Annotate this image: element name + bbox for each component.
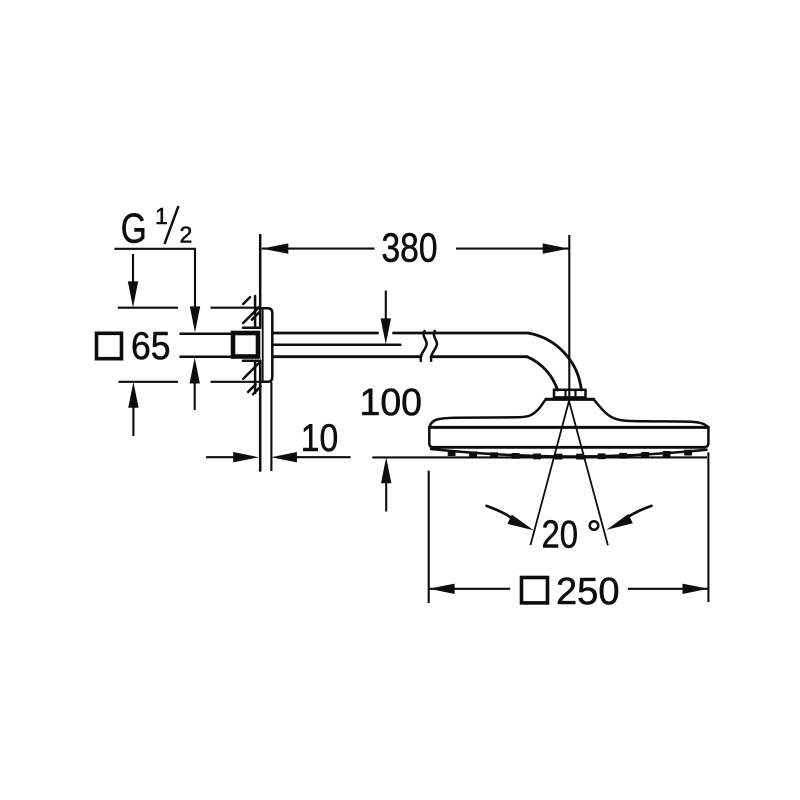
svg-text:100: 100: [360, 382, 423, 424]
wall hatch top: [243, 297, 260, 323]
svg-text:G: G: [121, 204, 147, 251]
dim 380 right extension line: [568, 235, 570, 401]
dim 100 down arrow stem: [385, 291, 387, 322]
ball joint nut: [554, 390, 586, 398]
dim 65 extension top: [118, 307, 260, 309]
degree symbol: [590, 521, 599, 530]
dim 100 reference line: [372, 456, 707, 458]
symbol square 250: [522, 578, 548, 603]
label G 1/2: [121, 203, 192, 251]
dim 65 up arrow stem: [132, 407, 134, 436]
supply pipe: [181, 334, 231, 357]
head bottom line: [434, 446, 705, 449]
svg-text:1: 1: [155, 203, 168, 229]
dim 380 line: [262, 248, 569, 250]
dim 65 down arrow stem: [132, 254, 134, 284]
arrowhead 380 right: [543, 243, 569, 253]
wall hole bottom edge: [243, 360, 260, 363]
head rim line: [429, 426, 708, 429]
wall hatch bottom: [243, 362, 260, 395]
inlet square nut: [233, 333, 258, 357]
mound top bar: [546, 398, 594, 401]
dim 250 right extension: [707, 452, 709, 602]
dim G half leader line: [114, 249, 195, 310]
wall line right (also 380 left extension line): [259, 235, 262, 471]
arrowhead swivel left: [507, 515, 533, 531]
arrowhead 100 up: [381, 457, 391, 483]
dim 250 line: [429, 588, 708, 590]
arm break cut line 1: [421, 331, 427, 361]
flange inner edge: [262, 309, 264, 382]
swivel ray left: [531, 401, 570, 545]
arrowhead 380 left: [262, 243, 289, 253]
dim G half up arrow stem: [194, 383, 196, 410]
svg-text:380: 380: [382, 225, 438, 271]
arrowhead swivel right: [606, 514, 632, 530]
wall line left: [254, 296, 257, 393]
arrowhead 65 up: [128, 382, 138, 408]
arrowhead 100 down: [381, 318, 391, 344]
arrowhead 250 left: [429, 584, 455, 594]
arrowhead 10 left: [271, 452, 297, 462]
arrowhead 65 down: [128, 281, 138, 307]
arrowhead G half down: [190, 306, 200, 332]
swivel arrow left tail: [486, 506, 514, 520]
svg-text:2: 2: [180, 222, 193, 248]
head dome right profile: [594, 399, 709, 428]
swivel arrow right tail: [625, 506, 653, 520]
spray face arc: [431, 449, 707, 456]
arm break cut line 2: [431, 331, 437, 361]
svg-text:20: 20: [542, 514, 579, 557]
arm bend inner curve: [527, 357, 558, 390]
head dome left profile: [429, 399, 546, 427]
flange escutcheon: [260, 308, 272, 382]
arm bend outer curve: [528, 333, 581, 390]
svg-text:65: 65: [131, 325, 171, 368]
dim 10 extension line (flange edge): [270, 382, 272, 471]
svg-text:10: 10: [301, 417, 339, 460]
dim 100 up arrow stem: [385, 482, 387, 512]
dim 250 left extension: [428, 471, 430, 603]
shower arm middle line: [273, 344, 400, 347]
wall hole top edge: [243, 326, 260, 329]
dim 10 line: [206, 456, 351, 458]
svg-text:250: 250: [556, 571, 620, 613]
dim 65 extension bottom: [119, 381, 261, 383]
head left side wall: [429, 429, 433, 448]
arrowhead 10 right: [233, 452, 259, 462]
swivel ray right: [569, 401, 608, 545]
spray nozzles: [448, 450, 692, 460]
shower arm bottom line: [273, 355, 527, 358]
symbol square 65: [97, 333, 122, 358]
arrowhead 250 right: [683, 584, 709, 594]
arrowhead G half up: [190, 358, 200, 384]
shower arm top line: [273, 332, 528, 335]
head right side wall: [704, 429, 708, 447]
